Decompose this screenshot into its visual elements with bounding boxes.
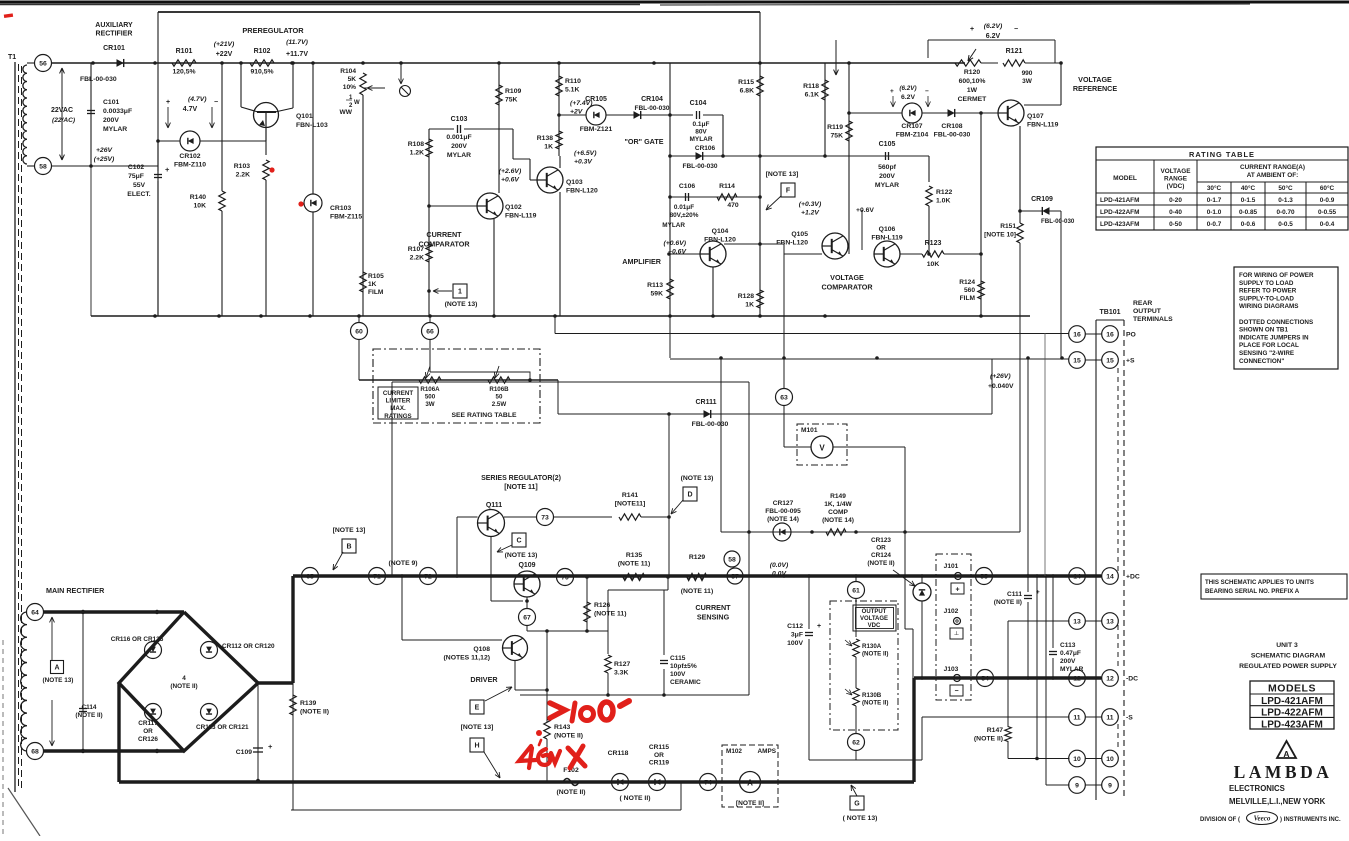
svg-text:MAIN RECTIFIER: MAIN RECTIFIER — [46, 586, 105, 595]
svg-text:R139: R139 — [300, 700, 316, 707]
svg-text:10K: 10K — [927, 261, 940, 268]
svg-text:+0.3V: +0.3V — [574, 159, 593, 166]
svg-text:73: 73 — [541, 514, 549, 521]
svg-text:15: 15 — [1073, 357, 1081, 364]
svg-text:(NOTE 13): (NOTE 13) — [43, 677, 74, 684]
svg-text:(+0.6V): (+0.6V) — [664, 240, 687, 247]
svg-text:┴: ┴ — [953, 631, 959, 639]
svg-text:C112: C112 — [787, 623, 803, 630]
svg-text:CR103: CR103 — [330, 205, 351, 212]
svg-text:54: 54 — [981, 675, 989, 682]
svg-text:R104: R104 — [340, 68, 356, 75]
svg-text:R135: R135 — [626, 552, 642, 559]
svg-text:( NOTE II): ( NOTE II) — [620, 795, 651, 802]
svg-text:(NOTE II): (NOTE II) — [974, 736, 1003, 743]
svg-text:Q106: Q106 — [879, 226, 896, 233]
svg-text:560pf: 560pf — [878, 164, 896, 171]
svg-text:200V: 200V — [451, 143, 467, 150]
svg-text:CR116 OR CR125: CR116 OR CR125 — [111, 636, 164, 643]
svg-text:R130B: R130B — [862, 692, 882, 699]
svg-text:14: 14 — [1106, 573, 1114, 580]
svg-text:Q104: Q104 — [712, 228, 729, 235]
svg-text:200V: 200V — [1060, 658, 1076, 665]
svg-text:0-0.6: 0-0.6 — [1241, 221, 1256, 228]
svg-text:470: 470 — [727, 202, 739, 209]
svg-text:FBL-00-030: FBL-00-030 — [682, 163, 717, 170]
svg-text:( NOTE 13): ( NOTE 13) — [843, 815, 878, 822]
svg-text:CR113 OR CR121: CR113 OR CR121 — [196, 724, 249, 731]
svg-text:(6.2V): (6.2V) — [899, 85, 916, 92]
svg-text:+1.2V: +1.2V — [801, 210, 820, 217]
svg-text:DRIVER: DRIVER — [470, 675, 498, 684]
svg-text:CONNECTION": CONNECTION" — [1239, 358, 1284, 365]
svg-text:0-0.70: 0-0.70 — [1276, 209, 1295, 216]
svg-text:[NOTE 10]: [NOTE 10] — [984, 232, 1016, 239]
svg-text:CR111: CR111 — [695, 399, 716, 406]
svg-text:[NOTE 11]: [NOTE 11] — [504, 484, 537, 491]
svg-text:RECTIFIER: RECTIFIER — [96, 31, 133, 38]
svg-text:3.3K: 3.3K — [614, 670, 628, 677]
svg-text:CURRENT: CURRENT — [383, 390, 413, 397]
svg-text:FBN-L120: FBN-L120 — [776, 240, 808, 247]
svg-text:12: 12 — [1106, 675, 1114, 682]
svg-text:SERIES REGULATOR(2): SERIES REGULATOR(2) — [481, 475, 561, 482]
svg-text:Q109: Q109 — [518, 562, 535, 569]
svg-text:REFER TO POWER: REFER TO POWER — [1239, 288, 1297, 295]
svg-text:75K: 75K — [505, 97, 518, 104]
svg-text:57: 57 — [731, 573, 739, 580]
svg-text:0-0.5: 0-0.5 — [1278, 221, 1293, 228]
svg-text:INDICATE JUMPERS IN: INDICATE JUMPERS IN — [1239, 334, 1309, 341]
svg-text:0.47μF: 0.47μF — [1060, 650, 1081, 657]
svg-text:0-40: 0-40 — [1169, 209, 1182, 216]
svg-text:+0.6V: +0.6V — [856, 207, 874, 214]
svg-text:+: + — [268, 742, 273, 751]
svg-text:R149: R149 — [830, 493, 846, 500]
svg-text:J101: J101 — [944, 563, 959, 570]
svg-text:990: 990 — [1022, 70, 1033, 77]
svg-text:58: 58 — [39, 163, 47, 170]
svg-text:-S: -S — [1126, 715, 1133, 722]
svg-text:R101: R101 — [176, 48, 193, 55]
svg-text:4: 4 — [182, 675, 186, 682]
svg-text:R108: R108 — [408, 141, 424, 148]
svg-text:(NOTE II): (NOTE II) — [994, 599, 1022, 606]
svg-text:−: − — [214, 99, 218, 106]
svg-text:CR127: CR127 — [773, 500, 794, 507]
svg-text:71: 71 — [373, 573, 381, 580]
svg-text:100V: 100V — [787, 640, 803, 647]
svg-text:THIS SCHEMATIC APPLIES TO UNIT: THIS SCHEMATIC APPLIES TO UNITS — [1205, 579, 1314, 586]
svg-text:AUXILIARY: AUXILIARY — [95, 22, 133, 29]
svg-text:+S: +S — [1126, 358, 1135, 365]
svg-text:0-0.4: 0-0.4 — [1320, 221, 1335, 228]
svg-text:DIVISION OF (: DIVISION OF ( — [1200, 817, 1240, 823]
svg-text:VOLTAGE: VOLTAGE — [1161, 168, 1192, 175]
svg-text:MODEL: MODEL — [1113, 175, 1137, 182]
svg-text:[NOTE 13]: [NOTE 13] — [766, 171, 799, 178]
svg-text:75K: 75K — [831, 133, 844, 140]
svg-text:CR123: CR123 — [871, 537, 891, 544]
svg-text:MYLAR: MYLAR — [689, 136, 712, 143]
svg-text:0.0033μF: 0.0033μF — [103, 108, 132, 115]
svg-text:DOTTED CONNECTIONS: DOTTED CONNECTIONS — [1239, 319, 1313, 326]
svg-text:COMPARATOR: COMPARATOR — [418, 239, 470, 248]
svg-text:CR118: CR118 — [608, 750, 629, 757]
svg-text:W: W — [354, 100, 360, 106]
svg-text:560: 560 — [964, 287, 975, 294]
svg-text:REAR: REAR — [1133, 300, 1152, 307]
svg-text:(NOTE 14): (NOTE 14) — [822, 517, 854, 524]
svg-text:FBM-Z121: FBM-Z121 — [580, 126, 613, 133]
svg-text:CURRENT: CURRENT — [426, 230, 462, 239]
svg-text:R130A: R130A — [862, 643, 882, 650]
svg-text:C104: C104 — [690, 100, 707, 107]
svg-text:10: 10 — [1106, 756, 1114, 763]
svg-text:9: 9 — [1108, 782, 1112, 789]
svg-text:1K: 1K — [745, 302, 754, 309]
svg-text:R109: R109 — [505, 88, 521, 95]
svg-text:WIRING DIAGRAMS: WIRING DIAGRAMS — [1239, 303, 1298, 310]
svg-text:CR124: CR124 — [871, 552, 891, 559]
svg-text:TB101: TB101 — [1099, 309, 1120, 316]
svg-text:500: 500 — [425, 393, 436, 400]
svg-text:OR: OR — [876, 545, 886, 552]
svg-text:VOLTAGE: VOLTAGE — [860, 616, 888, 622]
svg-text:65: 65 — [306, 573, 314, 580]
svg-text:R141: R141 — [622, 492, 638, 499]
svg-text:1K: 1K — [544, 144, 553, 151]
svg-text:VOLTAGE: VOLTAGE — [830, 273, 864, 282]
svg-text:12: 12 — [1073, 675, 1081, 682]
svg-text:ELECTRONICS: ELECTRONICS — [1229, 784, 1285, 793]
svg-text:SENSING "2-WIRE: SENSING "2-WIRE — [1239, 350, 1294, 357]
svg-text:0-0.85: 0-0.85 — [1239, 209, 1258, 216]
svg-text:LPD-421AFM: LPD-421AFM — [1100, 197, 1139, 204]
svg-text:0-20: 0-20 — [1169, 197, 1182, 204]
svg-text:LAMBDA: LAMBDA — [1234, 762, 1333, 782]
svg-text:SUPPLY TO LOAD: SUPPLY TO LOAD — [1239, 280, 1294, 287]
svg-text:(NOTE 11): (NOTE 11) — [618, 561, 650, 568]
svg-text:FBL-00-030: FBL-00-030 — [1041, 218, 1075, 225]
svg-text:(11.7V): (11.7V) — [286, 39, 309, 46]
svg-text:1W: 1W — [967, 87, 978, 94]
svg-text:CURRENT: CURRENT — [695, 603, 731, 612]
svg-text:TERMINALS: TERMINALS — [1133, 316, 1173, 323]
svg-text:6.1K: 6.1K — [805, 92, 819, 99]
svg-text:LIMITER: LIMITER — [386, 398, 411, 405]
svg-text:FBM-Z115: FBM-Z115 — [330, 214, 362, 221]
svg-text:80V,±20%: 80V,±20% — [670, 212, 699, 219]
svg-text:Q108: Q108 — [473, 646, 490, 653]
svg-text:(+2.6V): (+2.6V) — [499, 168, 522, 175]
svg-text:R113: R113 — [647, 282, 663, 289]
svg-text:PO: PO — [1126, 332, 1136, 339]
svg-text:BEARING SERIAL NO. PREFIX A: BEARING SERIAL NO. PREFIX A — [1205, 588, 1300, 595]
svg-text:Q105: Q105 — [791, 231, 808, 238]
svg-text:Q111: Q111 — [486, 502, 502, 509]
svg-text:[NOTE 13]: [NOTE 13] — [461, 724, 494, 731]
svg-text:R105: R105 — [368, 273, 384, 280]
svg-text:FBL-00-095: FBL-00-095 — [765, 508, 801, 515]
svg-text:SUPPLY-TO-LOAD: SUPPLY-TO-LOAD — [1239, 295, 1294, 302]
svg-text:13: 13 — [1073, 618, 1081, 625]
svg-text:(NOTE 9): (NOTE 9) — [388, 560, 417, 567]
svg-text:B: B — [346, 544, 351, 551]
svg-text:(+26V): (+26V) — [990, 373, 1011, 380]
svg-text:MYLAR: MYLAR — [447, 152, 471, 159]
svg-text:-DC: -DC — [1126, 676, 1138, 683]
svg-text:SCHEMATIC DIAGRAM: SCHEMATIC DIAGRAM — [1251, 653, 1326, 660]
svg-text:J102: J102 — [944, 608, 959, 615]
svg-text:Q107: Q107 — [1027, 113, 1044, 120]
svg-text:R115: R115 — [738, 79, 754, 86]
svg-text:3W: 3W — [425, 401, 434, 408]
svg-text:ELECT.: ELECT. — [127, 191, 151, 198]
svg-text:R120: R120 — [964, 69, 980, 76]
svg-text:COMP: COMP — [828, 509, 848, 516]
svg-text:A: A — [747, 779, 753, 788]
svg-text:FBN-L119: FBN-L119 — [505, 213, 537, 220]
svg-text:67: 67 — [523, 614, 531, 621]
svg-text:CR108: CR108 — [941, 123, 962, 130]
svg-text:C111: C111 — [1007, 591, 1022, 598]
svg-text:50°C: 50°C — [1278, 184, 1293, 192]
svg-text:FOR WIRING OF POWER: FOR WIRING OF POWER — [1239, 272, 1314, 279]
svg-text:C103: C103 — [451, 116, 468, 123]
svg-text:+DC: +DC — [1126, 574, 1140, 581]
svg-text:22VAC: 22VAC — [51, 107, 73, 114]
svg-text:OR: OR — [143, 728, 153, 735]
svg-text:FILM: FILM — [960, 295, 976, 302]
svg-text:75μF: 75μF — [128, 173, 144, 180]
svg-text:R147: R147 — [987, 727, 1003, 734]
svg-text:R119: R119 — [827, 124, 843, 131]
svg-text:74: 74 — [704, 779, 712, 786]
svg-text:FBM-Z110: FBM-Z110 — [174, 162, 206, 169]
svg-text:CURRENT RANGE(A): CURRENT RANGE(A) — [1240, 164, 1305, 171]
svg-text:C101: C101 — [103, 99, 119, 106]
svg-text:A: A — [54, 665, 59, 672]
svg-text:MYLAR: MYLAR — [103, 126, 127, 133]
svg-text:[NOTE 13]: [NOTE 13] — [333, 527, 366, 534]
svg-text:M101: M101 — [801, 427, 818, 434]
svg-text:14: 14 — [1073, 573, 1081, 580]
svg-text:10: 10 — [1073, 756, 1081, 763]
svg-text:+: + — [890, 88, 894, 95]
svg-text:3μF: 3μF — [791, 632, 803, 639]
svg-text:R118: R118 — [803, 83, 819, 90]
svg-text:2.2K: 2.2K — [410, 255, 424, 262]
svg-text:R127: R127 — [614, 661, 630, 668]
svg-text:+: + — [165, 165, 170, 174]
svg-text:(0.0V): (0.0V) — [770, 562, 789, 569]
svg-text:CR109: CR109 — [1031, 196, 1053, 203]
svg-text:V: V — [819, 444, 825, 453]
svg-text:PLACE FOR LOCAL: PLACE FOR LOCAL — [1239, 342, 1299, 349]
svg-text:SEE RATING TABLE: SEE RATING TABLE — [451, 412, 517, 419]
svg-text:0.01μF: 0.01μF — [674, 204, 694, 211]
svg-text:13: 13 — [1106, 618, 1114, 625]
svg-text:(NOTE 13): (NOTE 13) — [445, 301, 478, 308]
svg-text:R103: R103 — [234, 163, 250, 170]
svg-text:5.1K: 5.1K — [565, 87, 579, 94]
svg-text:VDC: VDC — [868, 623, 881, 629]
svg-text:FBN-L119: FBN-L119 — [1027, 122, 1059, 129]
svg-text:R123: R123 — [925, 240, 942, 247]
svg-text:J103: J103 — [944, 666, 959, 673]
svg-text:+: + — [166, 99, 170, 106]
svg-text:CR106: CR106 — [695, 145, 716, 152]
svg-text:1K: 1K — [368, 281, 377, 288]
svg-text:MELVILLE,L.I.,NEW YORK: MELVILLE,L.I.,NEW YORK — [1229, 797, 1326, 806]
svg-text:2.5W: 2.5W — [492, 401, 507, 408]
svg-text:6.2V: 6.2V — [986, 33, 1001, 40]
svg-text:10pf±5%: 10pf±5% — [670, 663, 697, 670]
svg-text:[NOTE11]: [NOTE11] — [615, 501, 646, 508]
svg-text:FBN-L120: FBN-L120 — [704, 237, 736, 244]
svg-text:0-1.3: 0-1.3 — [1278, 197, 1293, 204]
svg-text:CR107: CR107 — [901, 123, 922, 130]
svg-text:600,10%: 600,10% — [959, 78, 986, 85]
svg-text:R106B: R106B — [489, 386, 509, 393]
svg-text:(NOTE II): (NOTE II) — [554, 733, 583, 740]
svg-text:1.0K: 1.0K — [936, 198, 950, 205]
svg-text:(NOTE 13): (NOTE 13) — [681, 475, 714, 482]
svg-text:(NOTE II): (NOTE II) — [300, 709, 329, 716]
svg-text:910,5%: 910,5% — [250, 69, 273, 76]
svg-text:−: − — [1014, 26, 1018, 33]
svg-text:LPD-422AFM: LPD-422AFM — [1100, 209, 1139, 216]
svg-text:R114: R114 — [719, 183, 735, 190]
svg-text:+0.6V: +0.6V — [501, 177, 520, 184]
svg-text:T1: T1 — [8, 54, 16, 61]
svg-text:(NOTE II): (NOTE II) — [170, 683, 197, 690]
svg-text:LPD-423AFM: LPD-423AFM — [1261, 719, 1323, 730]
svg-text:AMPS: AMPS — [758, 748, 777, 755]
svg-text:R110: R110 — [565, 78, 581, 85]
svg-text:(NOTE 13): (NOTE 13) — [505, 552, 538, 559]
svg-text:R124: R124 — [959, 279, 975, 286]
svg-text:CR115: CR115 — [649, 744, 669, 751]
svg-text:AT AMBIENT OF:: AT AMBIENT OF: — [1247, 172, 1298, 179]
svg-text:0.1μF: 0.1μF — [693, 121, 710, 128]
svg-text:) INSTRUMENTS INC.: ) INSTRUMENTS INC. — [1280, 817, 1341, 823]
svg-text:OUTPUT: OUTPUT — [1133, 308, 1162, 315]
svg-text:C105: C105 — [879, 141, 896, 148]
svg-text:PREREGULATOR: PREREGULATOR — [242, 26, 304, 35]
svg-text:M102: M102 — [726, 748, 742, 755]
svg-text:RATINGS: RATINGS — [384, 413, 411, 420]
svg-text:200V: 200V — [103, 117, 119, 124]
svg-text:4.7V: 4.7V — [183, 106, 198, 113]
svg-text:A: A — [1283, 749, 1289, 759]
svg-text:16: 16 — [1073, 331, 1081, 338]
svg-text:OUTPUT: OUTPUT — [862, 609, 887, 615]
svg-text:F: F — [786, 188, 791, 195]
svg-text:R143: R143 — [554, 724, 570, 731]
svg-text:CR102: CR102 — [179, 153, 200, 160]
svg-text:C106: C106 — [679, 183, 695, 190]
svg-text:(NOTE II): (NOTE II) — [867, 560, 894, 567]
svg-text:(+21V): (+21V) — [214, 41, 235, 48]
svg-text:0.001μF: 0.001μF — [446, 134, 471, 141]
svg-text:VOLTAGE: VOLTAGE — [1078, 75, 1112, 84]
svg-text:FBL-00-030: FBL-00-030 — [634, 105, 669, 112]
svg-text:FBL-00-030: FBL-00-030 — [80, 76, 117, 83]
svg-text:61: 61 — [852, 587, 860, 594]
svg-text:120,5%: 120,5% — [172, 69, 195, 76]
svg-text:(+0.3V): (+0.3V) — [799, 201, 822, 208]
svg-text:+: + — [817, 623, 821, 630]
svg-text:RATING TABLE: RATING TABLE — [1189, 150, 1255, 159]
svg-text:(4.7V): (4.7V) — [188, 96, 207, 103]
svg-text:59K: 59K — [651, 291, 664, 298]
svg-text:R122: R122 — [936, 189, 952, 196]
svg-text:200V: 200V — [879, 173, 895, 180]
svg-text:+: + — [955, 587, 959, 594]
svg-text:(6.2V): (6.2V) — [984, 23, 1003, 30]
svg-text:(+25V): (+25V) — [94, 156, 115, 163]
svg-text:C114: C114 — [82, 704, 97, 711]
svg-text:60: 60 — [355, 328, 363, 335]
svg-text:+26V: +26V — [96, 147, 114, 154]
svg-text:COMPARATOR: COMPARATOR — [821, 282, 873, 291]
svg-text:(NOTE II): (NOTE II) — [862, 699, 888, 706]
svg-text:0-1.0: 0-1.0 — [1207, 209, 1222, 216]
svg-text:(22/AC): (22/AC) — [52, 117, 75, 124]
svg-text:+0.040V: +0.040V — [988, 383, 1014, 390]
svg-text:R138: R138 — [537, 135, 553, 142]
svg-text:CR105: CR105 — [585, 96, 607, 103]
svg-text:(NOTE II): (NOTE II) — [75, 712, 102, 719]
svg-text:0-0.55: 0-0.55 — [1318, 209, 1337, 216]
svg-text:0-50: 0-50 — [1169, 221, 1182, 228]
svg-text:WW: WW — [340, 109, 353, 116]
svg-text:R140: R140 — [190, 194, 206, 201]
svg-text:(NOTE 11): (NOTE 11) — [594, 611, 626, 618]
svg-text:62: 62 — [852, 739, 860, 746]
svg-text:9: 9 — [1075, 782, 1079, 789]
svg-text:11: 11 — [1106, 714, 1113, 721]
svg-text:64: 64 — [31, 609, 39, 616]
svg-text:1.2K: 1.2K — [410, 150, 424, 157]
svg-text:R102: R102 — [254, 48, 271, 55]
svg-text:11: 11 — [1073, 714, 1080, 721]
svg-text:10K: 10K — [194, 203, 207, 210]
svg-text:30°C: 30°C — [1207, 184, 1222, 192]
svg-text:C109: C109 — [236, 749, 252, 756]
svg-text:H: H — [474, 743, 479, 750]
svg-text:E: E — [475, 705, 480, 712]
svg-text:63: 63 — [780, 394, 788, 401]
svg-text:(VDC): (VDC) — [1167, 183, 1185, 190]
svg-text:R121: R121 — [1006, 48, 1023, 55]
svg-text:1: 1 — [458, 289, 462, 296]
svg-text:15: 15 — [1106, 357, 1114, 364]
svg-text:REFERENCE: REFERENCE — [1073, 84, 1118, 93]
svg-text:+22V: +22V — [216, 51, 233, 58]
svg-text:CR117: CR117 — [138, 720, 158, 727]
svg-text:68: 68 — [31, 748, 39, 755]
svg-text:−: − — [925, 88, 929, 95]
svg-text:Veeco: Veeco — [1254, 815, 1271, 823]
svg-text:3W: 3W — [1022, 78, 1033, 85]
svg-text:[NOTE II]: [NOTE II] — [736, 800, 764, 807]
svg-text:D: D — [687, 492, 692, 499]
svg-text:100V: 100V — [670, 671, 686, 678]
svg-text:(NOTES 11,12): (NOTES 11,12) — [444, 655, 490, 662]
